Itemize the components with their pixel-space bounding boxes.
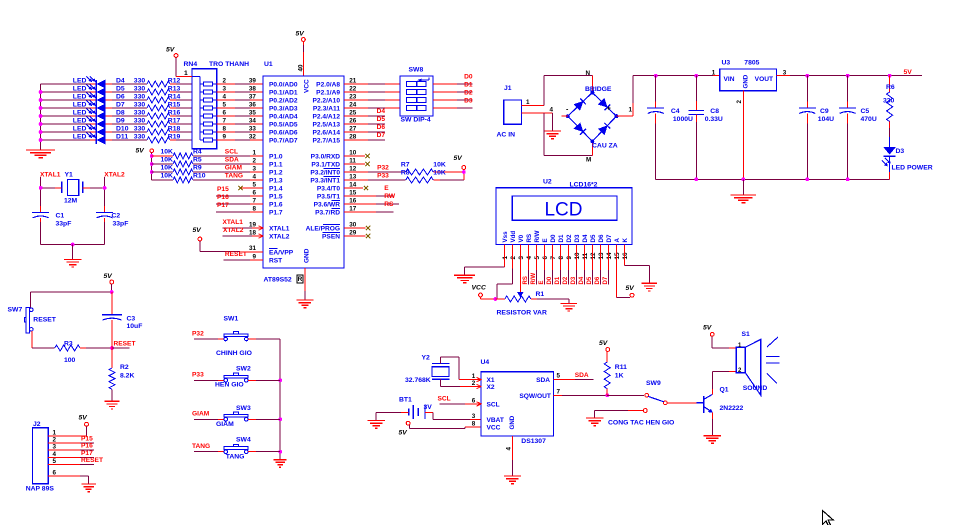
svg-text:10K: 10K — [433, 162, 446, 169]
svg-text:24: 24 — [349, 101, 357, 108]
crystal Y2 32.768K — [405, 355, 449, 384]
resistor R18 330 — [106, 125, 192, 135]
svg-text:PSEN: PSEN — [322, 233, 340, 240]
svg-text:RW: RW — [384, 193, 396, 200]
svg-text:D5: D5 — [590, 234, 597, 242]
5V supply R11 — [599, 340, 610, 351]
wire LCD pin 3 V0 to R1 wiper — [519, 245, 521, 293]
battery BT1 3V — [399, 397, 432, 420]
svg-text:TANG: TANG — [225, 172, 243, 179]
op-amp U1 AT89S52 microcontroller — [259, 61, 345, 284]
resistor R6 330 — [883, 76, 895, 137]
svg-text:1: 1 — [712, 69, 716, 76]
svg-text:P2.6/A14: P2.6/A14 — [313, 129, 341, 136]
no-connect U1 pin 30 — [344, 221, 370, 230]
switch SW2 HEN GIO net P33 — [192, 366, 280, 389]
svg-text:5V: 5V — [79, 415, 89, 422]
svg-text:RST: RST — [269, 257, 282, 264]
svg-text:P1.7: P1.7 — [269, 209, 283, 216]
wire LCD pin 10 net D3 — [571, 245, 577, 285]
svg-text:32: 32 — [249, 133, 257, 140]
svg-text:R11: R11 — [615, 364, 627, 371]
svg-text:P1.5: P1.5 — [269, 193, 283, 200]
svg-text:25: 25 — [349, 109, 357, 116]
svg-text:P0.2/AD2: P0.2/AD2 — [269, 97, 298, 104]
LED D6 — [41, 92, 125, 104]
wire net XTAL1 to U1 pin 19 — [223, 219, 264, 229]
capacitor C3 10uF — [102, 292, 142, 348]
svg-text:7: 7 — [223, 117, 227, 124]
svg-text:DS1307: DS1307 — [521, 438, 546, 445]
svg-text:1: 1 — [526, 99, 530, 106]
svg-text:SDA: SDA — [575, 372, 589, 379]
svg-text:33: 33 — [249, 125, 257, 132]
svg-text:38: 38 — [249, 85, 257, 92]
svg-text:LED: LED — [73, 125, 87, 132]
svg-text:P0.6/AD6: P0.6/AD6 — [269, 129, 298, 136]
node net label D4 — [377, 108, 386, 115]
svg-text:3: 3 — [518, 256, 525, 260]
svg-text:P15: P15 — [81, 435, 93, 442]
svg-text:4: 4 — [253, 173, 257, 180]
svg-text:A: A — [614, 238, 621, 243]
switch SW3 GIAM net GIAM — [192, 405, 280, 428]
svg-text:D11: D11 — [116, 133, 128, 140]
wire SW8 out net D1 — [433, 91, 473, 93]
svg-text:10K: 10K — [161, 173, 174, 180]
svg-text:D4: D4 — [582, 234, 589, 242]
svg-text:D1: D1 — [558, 234, 565, 242]
svg-text:16: 16 — [622, 252, 629, 260]
wire XTAL1 branch — [39, 177, 62, 213]
svg-text:R14: R14 — [168, 93, 181, 100]
wire net P17 to U1 pin 8 — [216, 202, 263, 212]
svg-text:D4: D4 — [579, 276, 585, 284]
capacitor C1 33pF — [32, 206, 71, 245]
wire net SDA to U1 pin 2 — [193, 157, 263, 164]
svg-text:VOUT: VOUT — [755, 76, 773, 83]
wire net TANG to U1 pin 4 — [193, 173, 263, 180]
svg-text:D1: D1 — [464, 82, 473, 89]
svg-text:10K: 10K — [433, 170, 446, 177]
svg-text:10K: 10K — [161, 149, 174, 156]
svg-text:J1: J1 — [504, 85, 512, 92]
svg-text:37: 37 — [249, 93, 257, 100]
svg-text:ALE/PROG: ALE/PROG — [306, 225, 340, 232]
node net label 5V — [904, 69, 913, 76]
capacitor C2 33pF — [96, 206, 128, 245]
wire RN4 pin 6 to U1 pin 35 — [217, 109, 263, 116]
node net label XTAL2 (crystal) — [104, 172, 125, 179]
svg-text:GIAM: GIAM — [216, 421, 234, 428]
svg-text:D5: D5 — [587, 276, 593, 284]
svg-text:0.33U: 0.33U — [705, 116, 723, 123]
svg-text:7: 7 — [550, 256, 557, 260]
svg-text:D6: D6 — [598, 234, 605, 242]
switch SW8 SW DIP-4 — [400, 67, 433, 124]
wire LCD pin 16 K to ground — [624, 245, 649, 284]
resistor R3 100 — [32, 331, 112, 364]
wire U1 pin 24 to SW8 — [344, 101, 400, 108]
wire 5V input rail — [633, 74, 720, 78]
node LED bus junction row 8 — [39, 114, 43, 118]
svg-text:11: 11 — [582, 252, 589, 259]
svg-text:330: 330 — [883, 98, 895, 105]
svg-text:X1: X1 — [487, 377, 495, 384]
svg-text:19: 19 — [249, 221, 257, 228]
svg-text:D6: D6 — [595, 276, 601, 284]
svg-text:GND: GND — [509, 415, 516, 429]
wire U1 pin 25 net D4 — [344, 109, 385, 116]
node VCC junction — [493, 297, 497, 301]
svg-text:D2: D2 — [566, 234, 573, 242]
svg-text:8: 8 — [223, 125, 227, 132]
svg-text:C3: C3 — [127, 315, 136, 322]
svg-text:LED: LED — [73, 85, 87, 92]
wire U1 pin 22 to SW8 — [344, 85, 400, 92]
svg-text:SCL: SCL — [438, 395, 451, 402]
RTC U4 DS1307 — [472, 359, 554, 445]
ground power supply — [731, 195, 756, 203]
resistor R19 330 — [106, 133, 192, 143]
svg-text:4: 4 — [526, 256, 533, 260]
wire net P15 to U1 pin 6 — [216, 186, 263, 196]
resistor R16 330 — [106, 109, 192, 119]
wire J1 pin 2 — [521, 106, 553, 131]
svg-text:X2: X2 — [487, 384, 495, 391]
svg-text:U3: U3 — [722, 59, 731, 66]
node net label TANG — [225, 172, 243, 179]
svg-text:P2.1/A9: P2.1/A9 — [316, 89, 340, 96]
wire LCD pin 2 Vdd to VCC — [497, 245, 512, 300]
svg-text:27: 27 — [349, 125, 357, 132]
svg-text:M: M — [586, 157, 591, 164]
LCD pin numbers — [502, 252, 629, 260]
LED D11 — [41, 132, 129, 144]
svg-text:VCC: VCC — [304, 79, 311, 93]
svg-text:D3: D3 — [571, 276, 577, 284]
svg-text:9: 9 — [253, 253, 257, 260]
svg-text:1K: 1K — [615, 373, 624, 380]
wire ground rail — [656, 177, 890, 195]
svg-text:TANG: TANG — [226, 454, 245, 461]
svg-text:15: 15 — [349, 189, 357, 196]
VCC supply LCD — [472, 285, 496, 299]
svg-text:32.768K: 32.768K — [405, 377, 431, 384]
svg-text:1: 1 — [629, 106, 633, 113]
svg-text:SW8: SW8 — [409, 67, 424, 74]
svg-text:P32: P32 — [192, 330, 204, 337]
svg-text:14: 14 — [606, 252, 613, 260]
node net label D2 — [464, 90, 473, 97]
svg-text:D5: D5 — [116, 85, 125, 92]
5V supply U4 VCC — [399, 421, 482, 436]
svg-text:R6: R6 — [886, 84, 895, 91]
5V supply for pullups — [136, 147, 154, 180]
node LED bus junction row 9 — [39, 122, 43, 126]
svg-text:D9: D9 — [116, 117, 125, 124]
svg-text:14: 14 — [349, 181, 357, 188]
svg-text:RESISTOR VAR: RESISTOR VAR — [497, 309, 547, 316]
svg-text:R17: R17 — [168, 117, 181, 124]
svg-text:2: 2 — [510, 256, 517, 260]
wire net GIAM to U1 pin 3 — [193, 165, 263, 172]
svg-text:5V: 5V — [454, 155, 464, 162]
ground Q1 — [704, 436, 722, 444]
svg-text:P1.1: P1.1 — [269, 161, 283, 168]
svg-text:P0.5/AD5: P0.5/AD5 — [269, 121, 298, 128]
ground AC input — [544, 131, 561, 139]
svg-text:31: 31 — [249, 245, 257, 252]
wire RN4 pin 5 to U1 pin 36 — [217, 101, 263, 108]
svg-text:10K: 10K — [161, 157, 174, 164]
svg-text:SW9: SW9 — [646, 380, 661, 387]
wire LCD pin 15 A to 5V — [616, 245, 630, 298]
svg-text:D7: D7 — [116, 101, 125, 108]
ground J2 — [81, 484, 95, 492]
svg-text:R1: R1 — [536, 291, 545, 298]
svg-text:Y2: Y2 — [422, 355, 431, 362]
svg-text:+: + — [607, 106, 611, 113]
ground SW9 — [586, 418, 603, 426]
svg-text:P1.4: P1.4 — [269, 185, 283, 192]
capacitor C9 104U — [799, 76, 834, 180]
svg-text:P3.7/RD: P3.7/RD — [315, 209, 340, 216]
svg-text:LED: LED — [73, 117, 87, 124]
svg-text:1: 1 — [184, 70, 188, 77]
wire net SCL to U1 pin 1 — [193, 149, 263, 156]
svg-text:E: E — [539, 280, 545, 284]
svg-text:V0: V0 — [518, 234, 525, 242]
svg-text:5: 5 — [53, 458, 57, 465]
svg-text:R10: R10 — [193, 173, 206, 180]
svg-text:SOUND: SOUND — [743, 385, 768, 392]
resistor R9 10K — [152, 165, 202, 175]
svg-text:8.2K: 8.2K — [120, 373, 134, 380]
wire LCD pin 12 net D5 — [587, 245, 593, 285]
svg-text:P0.3/AD3: P0.3/AD3 — [269, 105, 298, 112]
svg-text:33pF: 33pF — [56, 220, 72, 227]
wire bridge minus stub — [561, 115, 567, 117]
svg-text:E: E — [384, 185, 389, 192]
node net label SDA — [225, 156, 239, 163]
svg-text:RS: RS — [526, 234, 533, 243]
svg-text:330: 330 — [134, 133, 146, 140]
svg-text:BRIDGE: BRIDGE — [585, 86, 612, 93]
svg-text:TANG: TANG — [192, 443, 210, 450]
svg-text:P1.6: P1.6 — [269, 201, 283, 208]
svg-text:BT1: BT1 — [399, 397, 412, 404]
svg-text:330: 330 — [134, 109, 146, 116]
svg-text:LED: LED — [73, 133, 87, 140]
svg-text:RESET: RESET — [81, 457, 103, 464]
svg-text:XTAL1: XTAL1 — [269, 225, 290, 232]
svg-text:4: 4 — [506, 447, 513, 451]
LED D5 — [41, 84, 125, 96]
resistor R11 1K — [604, 352, 627, 396]
svg-text:GND: GND — [304, 248, 311, 263]
ground LCD Vss — [454, 275, 475, 283]
resistor R17 330 — [106, 117, 192, 127]
svg-text:34: 34 — [249, 117, 257, 124]
svg-text:4: 4 — [550, 106, 554, 113]
svg-text:SQW/OUT: SQW/OUT — [519, 393, 551, 400]
ground R1 — [561, 303, 577, 311]
no-connect U1 pin 5 — [238, 181, 263, 190]
svg-text:5: 5 — [557, 373, 561, 380]
wire LCD pin 9 net D2 — [563, 245, 569, 285]
ground U4 — [504, 476, 521, 484]
wire SW8 out net D3 — [433, 107, 473, 109]
svg-text:P2.4/A12: P2.4/A12 — [313, 113, 341, 120]
svg-text:N: N — [586, 70, 591, 77]
svg-text:C2: C2 — [112, 213, 121, 220]
svg-text:R9: R9 — [193, 165, 202, 172]
resistor R2 8.2K — [109, 348, 134, 401]
svg-text:3: 3 — [53, 443, 57, 450]
svg-text:GND: GND — [743, 74, 750, 88]
wire U1 pin 28 net D7 — [344, 133, 385, 140]
svg-text:SDA: SDA — [536, 377, 550, 384]
switch SW1 CHINH GIO net P32 — [192, 316, 280, 358]
svg-text:7: 7 — [557, 389, 561, 396]
svg-text:1: 1 — [53, 429, 57, 436]
svg-text:3V: 3V — [424, 404, 433, 411]
svg-text:12: 12 — [590, 252, 597, 260]
5V supply for U1 EA/VPP pin 31 — [193, 227, 264, 252]
resistor network RN4 TRO THANH — [184, 61, 250, 149]
no-connect U1 pin 14 — [344, 181, 368, 190]
svg-text:36: 36 — [249, 101, 257, 108]
ground LED bus — [26, 150, 55, 158]
resistor R10 10K — [152, 173, 206, 183]
svg-text:6: 6 — [542, 256, 549, 260]
wire U1 pin 15 net E — [344, 185, 393, 196]
wire Q1 emitter to ground — [711, 412, 713, 435]
svg-text:28: 28 — [349, 133, 357, 140]
svg-text:VIN: VIN — [724, 76, 735, 83]
svg-text:Q1: Q1 — [720, 387, 729, 394]
node net label D5 — [377, 116, 386, 123]
wire U1 pin 17 net RS — [344, 201, 394, 212]
svg-text:40: 40 — [298, 64, 305, 72]
resistor R13 330 — [106, 85, 192, 95]
svg-text:LED: LED — [73, 101, 87, 108]
svg-text:7: 7 — [253, 197, 257, 204]
wire U3 GND pin 2 — [742, 91, 744, 180]
svg-text:30: 30 — [349, 221, 357, 228]
svg-text:Y1: Y1 — [65, 172, 74, 179]
svg-text:C8: C8 — [710, 108, 719, 115]
wire U1 pin 27 net D6 — [344, 125, 385, 132]
svg-text:3: 3 — [253, 165, 257, 172]
5V supply speaker — [703, 325, 736, 349]
svg-text:C9: C9 — [820, 108, 829, 115]
no-connect U1 pin 29 — [344, 229, 370, 238]
svg-text:13: 13 — [598, 252, 605, 260]
svg-text:2: 2 — [53, 436, 57, 443]
svg-text:P0.1/AD1: P0.1/AD1 — [269, 89, 298, 96]
LED D4 — [41, 76, 125, 88]
ground BT1 — [368, 421, 385, 429]
svg-text:22: 22 — [349, 85, 357, 92]
svg-text:C5: C5 — [861, 108, 870, 115]
svg-text:12M: 12M — [64, 198, 78, 205]
wire LED anode bus — [40, 84, 42, 150]
svg-text:R15: R15 — [168, 101, 181, 108]
svg-text:P15: P15 — [217, 186, 229, 193]
svg-text:16: 16 — [349, 197, 357, 204]
wire SW8 out net D0 — [433, 83, 473, 85]
svg-text:P0.7/AD7: P0.7/AD7 — [269, 137, 298, 144]
bridge rectifier CAU ZA — [566, 86, 619, 150]
svg-text:5V: 5V — [904, 69, 913, 76]
wire net RESET to U1 RST pin 9 — [224, 251, 263, 260]
svg-text:R: R — [298, 276, 303, 283]
wire J2 pin 2 net P15 — [48, 435, 94, 443]
svg-text:VBAT: VBAT — [487, 417, 504, 424]
svg-text:AC IN: AC IN — [497, 132, 516, 139]
svg-text:R7: R7 — [401, 162, 410, 169]
svg-text:P17: P17 — [217, 202, 229, 209]
svg-text:VCC: VCC — [472, 285, 486, 292]
svg-text:XTAL2: XTAL2 — [104, 172, 125, 179]
svg-text:P1.2: P1.2 — [269, 169, 283, 176]
svg-text:R13: R13 — [168, 85, 181, 92]
svg-text:R2: R2 — [120, 364, 129, 371]
node LED bus junction row 6 — [39, 98, 43, 102]
svg-text:5V: 5V — [703, 325, 713, 332]
svg-text:330: 330 — [134, 93, 146, 100]
svg-text:R18: R18 — [168, 125, 181, 132]
svg-text:2: 2 — [223, 77, 227, 84]
svg-text:D2: D2 — [464, 90, 473, 97]
svg-text:SW3: SW3 — [236, 405, 251, 412]
wire RN4 pin 7 to U1 pin 34 — [217, 117, 263, 124]
LED D7 — [41, 100, 125, 112]
5V supply reset — [104, 273, 114, 292]
svg-text:R4: R4 — [193, 149, 202, 156]
svg-text:6: 6 — [53, 470, 57, 477]
ground R2 — [105, 401, 120, 409]
svg-text:P1.3: P1.3 — [269, 177, 283, 184]
wire SW common vertical to ground — [278, 339, 282, 460]
svg-text:EA/VPP: EA/VPP — [269, 249, 294, 256]
svg-text:LED: LED — [73, 77, 87, 84]
svg-text:C4: C4 — [671, 108, 680, 115]
wire J2 pin 6 to ground — [48, 470, 88, 484]
svg-text:GIAM: GIAM — [192, 411, 210, 418]
resistor R15 330 — [106, 101, 192, 111]
svg-text:104U: 104U — [818, 116, 834, 123]
resistor R7 10K net P32 — [344, 162, 464, 176]
transistor Q1 2N2222 — [697, 387, 744, 414]
svg-text:11: 11 — [349, 157, 356, 164]
wire SW8 out net D2 — [433, 99, 473, 101]
5V supply for R7 R8 — [454, 155, 466, 180]
svg-text:5V: 5V — [166, 47, 176, 54]
svg-text:SW4: SW4 — [236, 437, 251, 444]
svg-text:E: E — [542, 238, 549, 242]
wire XTAL2 branch — [83, 177, 107, 213]
node LED bus junction row 10 — [39, 130, 43, 134]
resistor R12 330 — [106, 77, 192, 87]
svg-text:CAU ZA: CAU ZA — [592, 142, 618, 149]
svg-text:R3: R3 — [64, 340, 73, 347]
node LED bus junction row 11 — [39, 138, 43, 142]
mouse cursor — [823, 511, 834, 527]
svg-text:P16: P16 — [217, 194, 229, 201]
